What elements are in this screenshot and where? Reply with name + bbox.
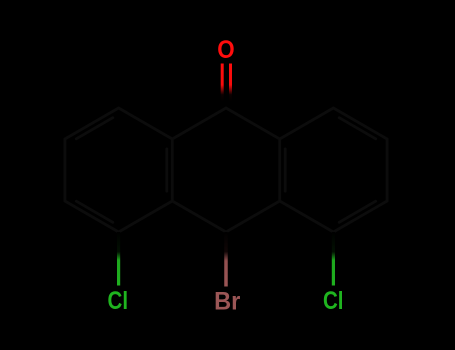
double bond inner C6=C5	[339, 201, 376, 222]
svg-text:Cl: Cl	[323, 287, 344, 315]
wire bond C9a-C4a	[171, 139, 174, 201]
wire bond C10a-C10	[226, 201, 280, 232]
double bond inner C1=C2	[76, 118, 113, 139]
wire bond C6-C5	[333, 201, 387, 232]
wire bond C8-C7	[333, 108, 387, 139]
wire bond C4-C4a	[119, 201, 173, 232]
bond C10-Br	[224, 232, 228, 287]
wire bond C9-C8a	[226, 108, 280, 139]
svg-text:O: O	[217, 36, 234, 64]
bond C5-Cl (right)	[332, 232, 335, 286]
carbonyl double bond C9=O	[222, 64, 230, 107]
bond C4-Cl (left)	[117, 232, 120, 286]
wire bond C8a-C10a	[278, 139, 281, 201]
svg-text:Br: Br	[214, 287, 240, 315]
double bond inner C8a=C10a	[284, 149, 287, 191]
wire bond C3-C4	[65, 201, 119, 232]
wire bond C8a-C8	[280, 108, 334, 139]
wire bond C9a-C1	[119, 108, 173, 139]
wire bond C5-C10a	[280, 201, 334, 232]
wire bond C7-C6	[386, 139, 389, 201]
wire bond C2-C3	[64, 139, 67, 201]
double bond inner C8=C7	[339, 118, 376, 139]
double bond inner C4a=C9a	[165, 149, 168, 191]
double bond inner C3=C4	[76, 201, 113, 222]
wire bond C4a-C10	[172, 201, 226, 232]
wire bond C1-C2	[65, 108, 119, 139]
svg-text:Cl: Cl	[108, 287, 129, 315]
wire bond C9-C9a	[172, 108, 226, 139]
